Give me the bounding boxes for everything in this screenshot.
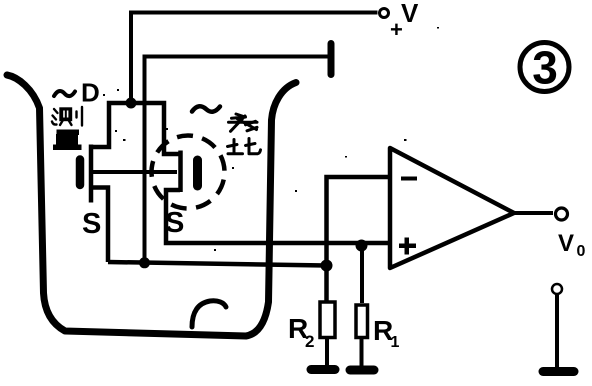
label Bi (reference 2) [228,139,261,154]
solution arc [192,301,226,327]
inverting input wire [327,177,389,301]
output wire [514,211,553,215]
op-amp U1 [390,148,514,268]
badge 3 [520,43,569,92]
svg-text:1: 1 [391,334,400,351]
resistor R2 [320,302,335,338]
label Ce (measure) [52,107,82,126]
ISFET M2 source wire / + rail [166,190,388,243]
junction rail / electrode wire [139,257,150,268]
svg-text:D: D [81,78,100,108]
R1 bottom lead [360,339,364,366]
R1 top lead [360,245,364,303]
tilde left [54,91,75,96]
terminal +V [380,9,389,18]
label Can (reference 1) [229,114,258,131]
R2 ground bar [311,365,335,374]
junction drain rail / +V [126,98,137,109]
electrode bar [328,44,335,75]
ground terminal right [552,284,562,294]
wire reference electrode [145,57,329,264]
junction rail / inverting lead [321,260,333,272]
scan specks [103,27,439,251]
junction + rail / R1 [356,240,368,252]
svg-text:V: V [558,230,574,257]
dashed circle reference FET [145,129,232,216]
ISFET M1 channel [89,145,94,203]
bulk line [93,170,177,174]
ground bar right [543,367,574,376]
output terminal [556,208,568,220]
ISFET M2 channel [178,151,183,193]
ISFET M1 source wire [91,188,108,263]
svg-text:3: 3 [532,42,558,94]
svg-text:V: V [401,0,419,28]
svg-text:S: S [165,207,184,239]
ground lead right [555,295,559,368]
R2 bottom lead [325,339,329,366]
tilde right [192,106,220,111]
op-amp minus sign [401,177,417,181]
drain rail [91,103,180,154]
wire +V top [131,13,378,104]
label Liang blob [53,130,82,151]
R1 ground bar [350,366,374,375]
beaker [7,75,296,336]
source rail lower [108,262,327,266]
ISFET M2 gate electrode [193,160,202,186]
svg-text:0: 0 [577,243,586,260]
svg-text:S: S [82,208,101,240]
svg-text:2: 2 [305,332,314,351]
resistor R1 [356,305,368,338]
op-amp plus sign [399,244,416,249]
ISFET M1 gate electrode [76,160,85,186]
